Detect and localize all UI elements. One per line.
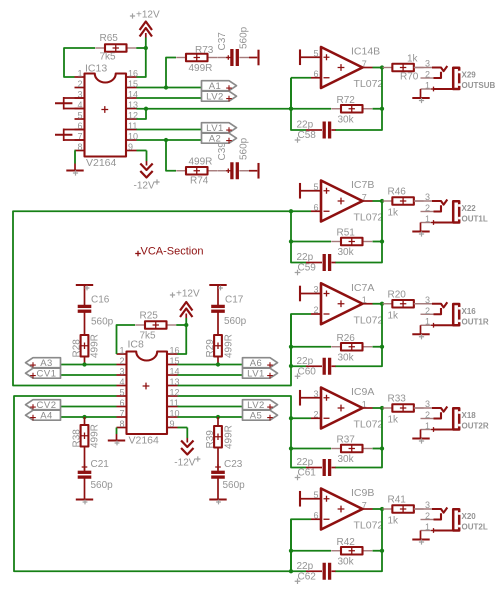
wire (vertical to R72 node) [290,78,292,109]
wire [381,200,384,202]
svg-text:22p: 22p [297,356,314,367]
wire (feedback left) [291,314,306,366]
resistor R65 [95,44,136,52]
wire (R65 to +12V junction) [136,47,146,49]
svg-text:TL072: TL072 [354,419,384,431]
pin 13 [126,100,138,110]
svg-text:3: 3 [313,389,318,399]
svg-text:8: 8 [119,419,124,429]
ground (C23 bottom) [209,478,226,504]
capacitor C59 [295,254,336,275]
svg-text:8: 8 [77,142,82,152]
svg-text:499R: 499R [90,424,101,448]
resistor R73 [176,54,217,62]
svg-text:1: 1 [425,421,430,431]
svg-text:C16: C16 [91,295,110,306]
wire [291,448,331,450]
pin 15 [126,79,138,89]
wire (pin 11 net) [137,129,202,131]
ground (C21 bottom) [76,478,93,504]
svg-text:2: 2 [77,79,82,89]
ground (jack sleeve) [412,89,429,103]
wire (feedback right) [335,408,382,468]
wire [84,312,86,336]
svg-text:R42: R42 [337,537,356,548]
pin 8 [75,142,85,152]
svg-text:CV1: CV1 [37,369,57,380]
svg-text:C23: C23 [224,459,243,470]
ground (C37) [249,50,259,66]
node junction [289,209,293,213]
svg-text:2: 2 [425,203,430,213]
wire (feedback right) [335,68,382,131]
svg-text:OUT2R: OUT2R [462,422,489,431]
svg-text:R28: R28 [72,339,83,358]
svg-text:560p: 560p [91,480,114,491]
wire (pin 9 to -12V) [137,150,147,152]
wire [363,67,373,69]
wire [363,200,373,202]
svg-text:2: 2 [425,306,430,316]
node junction [82,415,86,419]
svg-text:IC7B: IC7B [351,179,374,191]
svg-text:4: 4 [119,377,124,387]
svg-text:3: 3 [425,192,430,202]
capacitor C16 [78,306,92,311]
wire (IC8 pin13 to IC7A inverting input) [178,314,312,386]
wire (pin 9 to -12V) [178,427,188,429]
node junction [380,65,384,69]
wire (pin 2 net) [61,364,117,366]
svg-text:1: 1 [425,80,430,90]
pin 3 [117,366,127,376]
node junction [184,323,188,327]
wire (junction down to pin 16) [137,48,146,77]
svg-text:1k: 1k [388,310,400,321]
svg-text:R74: R74 [190,176,209,187]
svg-text:IC13: IC13 [85,63,107,75]
connector X18 [414,407,461,432]
ground (C17 top) [209,285,226,296]
svg-text:A4: A4 [40,411,53,422]
resistor R51 [331,238,372,246]
wire (feedback right) [335,304,382,367]
wire (pin 15 net) [178,364,243,366]
wire (pin 11 net) [178,406,243,408]
wire [373,448,383,450]
pin 5 [75,110,85,120]
wire [373,407,383,409]
pin 9 [167,419,178,429]
wire [217,448,219,473]
capacitor C62 [295,563,336,584]
capacitor C61 [295,459,336,480]
svg-text:7k5: 7k5 [140,331,157,342]
wire (pin1 to R25) [117,325,136,354]
wire [84,417,86,425]
resistor R72 [331,105,372,113]
svg-text:1k: 1k [388,208,400,219]
wire [373,108,383,110]
IC IC13 V2164 body [85,63,127,170]
resistor R39 [214,426,222,448]
pin 11 [167,398,179,408]
svg-text:560p: 560p [239,137,250,160]
node junction [216,362,220,366]
pin 16 [126,68,138,78]
pin 6 [75,121,85,131]
wire (pin 15 net) [137,87,202,89]
resistor R46 [383,197,424,205]
svg-text:R51: R51 [337,228,356,239]
wire (pin 6 net) [61,406,117,408]
svg-text:22p: 22p [297,561,314,572]
pin 6 [117,398,127,408]
svg-text:R46: R46 [388,187,407,198]
node junction [289,416,293,420]
ground (non-inverting input) [300,286,321,302]
svg-text:1k: 1k [388,415,400,426]
node junction [82,362,86,366]
ground (C16 top) [76,285,93,296]
ground (jack sleeve) [412,531,429,545]
wire (R25 to junction) [176,324,186,326]
wire [217,296,219,306]
pin 14 [167,366,180,376]
svg-text:7: 7 [119,408,124,418]
wire [363,303,373,305]
pin 1 [117,345,127,355]
pin 11 [126,121,137,131]
node A1 [202,81,237,92]
wire [291,346,331,348]
svg-text:3: 3 [425,59,430,69]
svg-text:C37: C37 [217,32,228,51]
op-amp IC7A [321,282,383,326]
ground (IC13 pin 8) [66,151,83,176]
wire [217,357,219,365]
resistor R33 [383,404,424,412]
pin 14 [126,89,138,99]
connector X20 [414,508,461,533]
pin 5 [117,387,127,397]
wire [217,417,219,426]
node junction [289,364,293,368]
svg-text:R39: R39 [205,430,216,449]
wire [291,241,331,243]
svg-text:1: 1 [425,522,430,532]
svg-text:5: 5 [313,182,318,192]
svg-text:3: 3 [313,285,318,295]
node CV1 [26,368,61,379]
node A3 [26,358,61,369]
resistor R74 [176,167,217,175]
wire (pin 13 long net) [137,108,292,110]
wire [381,508,384,510]
node junction [164,85,168,89]
svg-text:11: 11 [170,398,179,408]
wire [373,67,383,69]
pin 10 [126,131,138,141]
capacitor C17 [211,306,225,311]
wire (pin 7 net) [61,416,117,418]
op-amp IC9B [321,487,383,531]
wire [373,550,383,552]
svg-text:30k: 30k [338,247,355,258]
svg-text:499R: 499R [189,157,213,168]
svg-text:OUT1R: OUT1R [462,317,489,326]
svg-text:R25: R25 [140,311,159,322]
node junction [380,199,384,203]
node junction [216,415,220,419]
svg-text:1: 1 [425,214,430,224]
wire [311,518,321,520]
svg-text:R72: R72 [337,95,356,106]
node LV1 [202,123,237,134]
pin 4 [117,377,127,387]
wire (junction down to pin 16) [178,325,187,354]
svg-text:7k5: 7k5 [100,52,117,63]
svg-text:TL072: TL072 [354,78,384,90]
wire (pin 12 joins) [137,109,147,119]
ground (non-inverting input) [300,183,321,199]
node junction [144,107,148,111]
svg-text:-12V: -12V [134,181,155,192]
node LV2 [243,400,278,411]
resistor R70 [383,64,424,72]
wire [291,550,331,552]
svg-text:30k: 30k [338,454,355,465]
pin 16 [167,345,180,355]
svg-text:IC9B: IC9B [351,487,374,499]
svg-text:3: 3 [425,500,430,510]
ground (jack sleeve) [412,430,429,444]
pin 2 [117,356,127,366]
svg-text:X29: X29 [462,71,477,80]
node A4 [26,410,61,421]
svg-text:C61: C61 [298,468,317,479]
svg-text:+12V: +12V [176,289,200,300]
op-amp IC14B [321,46,383,90]
svg-text:2: 2 [425,410,430,420]
node junction [144,46,148,50]
wire [311,313,321,315]
svg-text:560p: 560p [223,480,246,491]
svg-text:R41: R41 [388,495,407,506]
svg-text:R20: R20 [388,289,407,300]
node junction [380,507,384,511]
svg-text:499R: 499R [224,425,235,449]
resistor R25 [135,321,176,329]
svg-text:C17: C17 [225,295,244,306]
wire [84,296,86,306]
ground (jack sleeve) [412,223,429,237]
wire (feedback left) [291,78,306,130]
wire (pin 10 net) [137,139,202,141]
svg-text:IC9A: IC9A [351,386,374,398]
svg-text:11: 11 [128,121,137,131]
wire [84,357,86,365]
resistor R28 [81,335,89,357]
svg-text:TL072: TL072 [354,212,384,224]
supply +12V [170,289,200,326]
pin 1 [75,68,85,78]
node junction [380,302,384,306]
pin 15 [167,356,180,366]
pin 13 [167,377,180,387]
wire (pin 3 net) [61,374,117,376]
svg-text:22p: 22p [297,252,314,263]
svg-text:R73: R73 [195,45,214,56]
node junction [380,406,384,410]
wire (feedback left) [291,211,306,262]
wire [363,508,373,510]
svg-text:12: 12 [170,387,180,397]
pin 3 [75,89,85,99]
wire [363,407,373,409]
node junction [289,239,293,243]
wire (pin 14 net) [178,374,243,376]
wire (branch to R73) [166,58,176,88]
ground (non-inverting input) [300,49,321,65]
svg-text:2: 2 [425,511,430,521]
svg-text:VCA-Section: VCA-Section [141,246,204,258]
node junction [164,138,168,142]
wire (rail IC8 pin4 to IC7B inverting input) [13,211,311,385]
svg-text:R37: R37 [337,435,356,446]
node junction [380,446,384,450]
wire [373,241,383,243]
resistor R41 [383,505,424,513]
resistor R37 [331,445,372,453]
resistor R38 [81,425,89,447]
connector X22 [414,200,461,225]
svg-text:-12V: -12V [174,458,195,469]
pin 10 [167,408,180,418]
node LV1 [243,368,278,379]
capacitor C39 [218,162,250,179]
svg-text:+12V: +12V [136,10,160,21]
svg-text:R38: R38 [72,429,83,448]
svg-text:499R: 499R [189,63,213,74]
wire [311,77,321,79]
svg-text:9: 9 [128,142,133,152]
svg-text:3: 3 [425,295,430,305]
capacitor C37 [218,49,250,66]
svg-text:V2164: V2164 [129,435,160,447]
supply -12V [174,428,200,469]
wire (branch to R74) [166,140,176,171]
node junction [380,549,384,553]
svg-text:1: 1 [77,68,82,78]
node junction [289,107,293,111]
node junction [380,107,384,111]
svg-text:R26: R26 [337,333,356,344]
svg-text:9: 9 [170,419,175,429]
wire [217,312,219,336]
op-amp IC9A [321,386,383,430]
wire (IC8 pin12 to IC9A inverting input) [178,396,312,418]
capacitor C23 [211,472,225,477]
svg-text:IC14B: IC14B [351,46,380,58]
svg-text:5: 5 [313,48,318,58]
wire [84,447,86,473]
svg-text:22p: 22p [297,457,314,468]
ground (non-inverting input) [300,390,321,406]
svg-text:R29: R29 [205,339,216,358]
wire (feedback left) [291,519,306,571]
svg-text:TL072: TL072 [354,520,384,532]
pin 4 [75,100,85,110]
svg-text:X18: X18 [462,411,477,420]
wire (up to IC9B inverting input) [291,519,311,571]
node junction [380,239,384,243]
svg-text:R33: R33 [388,394,407,405]
ground (IC13 pins 6-7) [55,129,85,142]
node A2 [202,133,237,144]
svg-text:OUTSUB: OUTSUB [462,81,496,90]
svg-text:30k: 30k [338,556,355,567]
svg-text:1: 1 [425,317,430,327]
text VCA-Section [135,246,203,258]
resistor R42 [331,547,372,555]
ground (jack sleeve) [412,325,429,339]
wire [381,303,384,305]
svg-text:2: 2 [119,356,124,366]
ground (non-inverting input) [300,491,321,507]
node junction [289,107,293,111]
pin 8 [117,419,127,429]
pin 7 [75,131,85,141]
wire [373,508,383,510]
svg-text:30k: 30k [338,352,355,363]
svg-text:C58: C58 [298,130,317,141]
wire [381,407,384,409]
wire (IC14B inverting input from vertical) [291,77,311,79]
svg-text:499R: 499R [224,334,235,358]
svg-text:A5: A5 [250,411,263,422]
capacitor C60 [295,358,336,379]
pin 12 [167,387,180,397]
node A6 [243,358,278,369]
svg-text:1: 1 [119,345,124,355]
node junction [289,446,293,450]
op-amp IC7B [321,179,383,223]
svg-text:499R: 499R [90,334,101,358]
svg-text:560p: 560p [239,26,250,49]
svg-text:5: 5 [313,490,318,500]
svg-text:V2164: V2164 [86,157,117,169]
wire (pin 14 net) [137,97,202,99]
capacitor C58 [295,122,336,143]
wire (rail IC8 pin5 to IC9B net) [14,396,291,571]
connector X29 [414,66,461,91]
svg-text:5: 5 [77,110,82,120]
wire [311,210,321,212]
svg-text:2: 2 [425,70,430,80]
IC IC8 V2164 body [127,339,168,447]
node junction [289,569,293,573]
supply -12V [134,151,160,192]
wire (pin 10 net) [178,416,243,418]
ground (C39) [249,163,259,179]
svg-text:OUT1L: OUT1L [462,215,488,224]
svg-text:C59: C59 [298,263,317,274]
node A5 [243,410,278,421]
svg-text:560p: 560p [224,316,247,327]
wire (feedback left) [291,418,306,467]
node CV2 [26,400,61,411]
